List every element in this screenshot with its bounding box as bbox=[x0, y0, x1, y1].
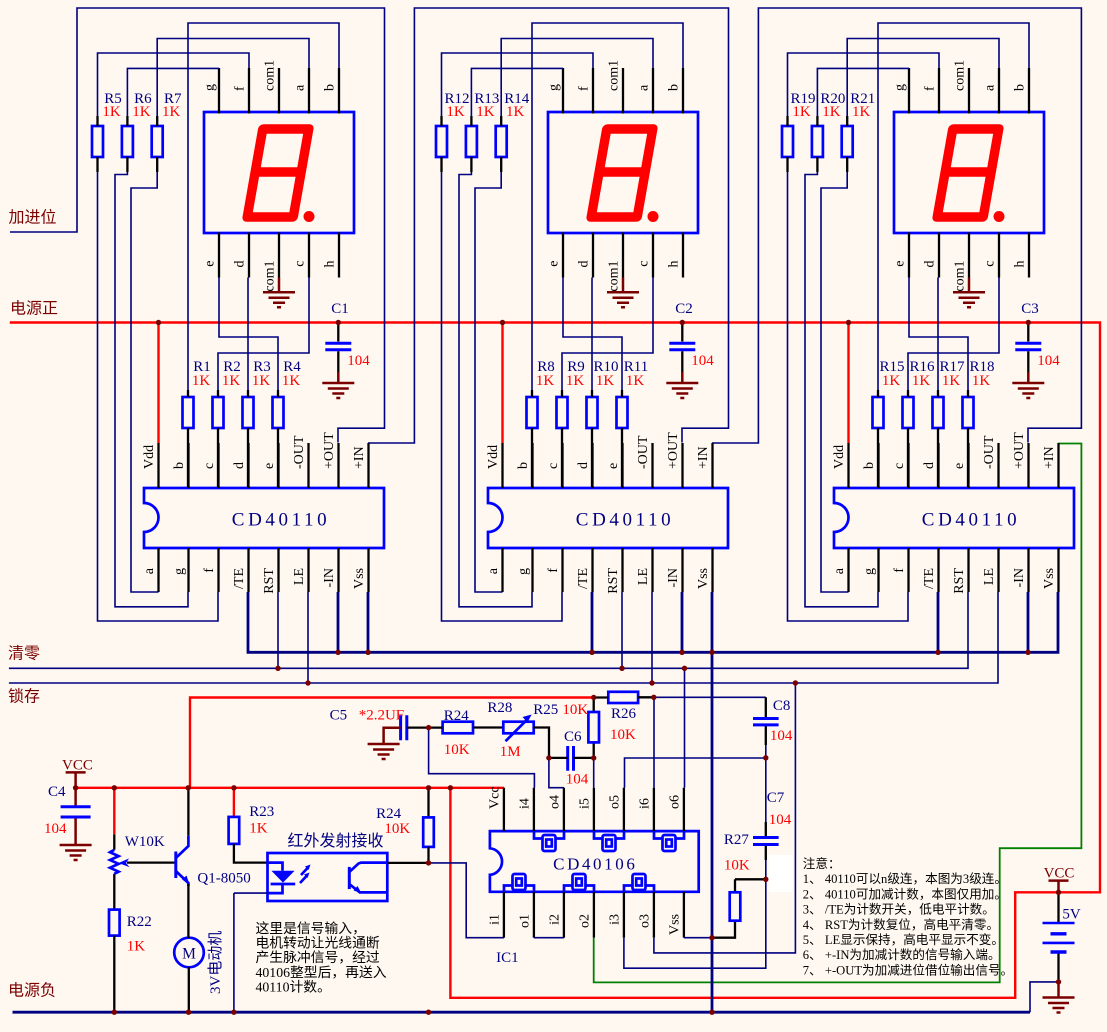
svg-text:e: e bbox=[262, 463, 277, 469]
pin f of U1 bbox=[217, 548, 219, 592]
svg-text:104: 104 bbox=[44, 821, 67, 837]
pin b of U3 bbox=[877, 443, 879, 488]
svg-text:com1: com1 bbox=[607, 261, 622, 292]
pin a of U3 bbox=[847, 548, 849, 592]
svg-text:o6: o6 bbox=[667, 795, 682, 809]
pin a of DS1 (top) bbox=[308, 68, 310, 114]
svg-text:4、 RST为计数复位，高电平清零。: 4、 RST为计数复位，高电平清零。 bbox=[803, 917, 999, 932]
svg-text:i1: i1 bbox=[487, 914, 502, 925]
junction node bbox=[546, 755, 551, 760]
schmitt gate symbols bbox=[534, 831, 564, 838]
net 电源正 positive supply rail bbox=[10, 323, 1100, 998]
svg-text:b: b bbox=[667, 84, 682, 91]
svg-text:d: d bbox=[923, 261, 938, 268]
svg-text:c: c bbox=[202, 463, 217, 469]
pin h of DS2 (bottom) bbox=[682, 233, 684, 278]
pin d of U1 bbox=[247, 443, 249, 488]
svg-text:1K: 1K bbox=[476, 104, 495, 120]
net /TE-Vss ground bus bbox=[248, 592, 1058, 652]
svg-text:104: 104 bbox=[347, 353, 370, 369]
wire R-d to display d bbox=[247, 278, 249, 391]
svg-text:1K: 1K bbox=[536, 373, 555, 389]
svg-text:e: e bbox=[606, 463, 621, 469]
ground at display DS2 com1 bbox=[622, 278, 625, 293]
transistor Q1-8050 bbox=[187, 788, 189, 836]
wire R-a to display a bbox=[157, 39, 309, 117]
svg-text:i2: i2 bbox=[547, 914, 562, 925]
pin -IN of U1 bbox=[337, 548, 339, 592]
wire count signal o2 to +IN3 (green) bbox=[594, 444, 1082, 983]
junction on 锁存 bus bbox=[649, 680, 654, 685]
op-chip U1 CD40110 bbox=[144, 488, 384, 548]
svg-text:c: c bbox=[637, 261, 652, 267]
pin Vss of U3 bbox=[1057, 548, 1059, 592]
svg-text:-OUT: -OUT bbox=[292, 435, 307, 469]
wire R-a to display a bbox=[501, 39, 653, 117]
resistor R27 10K bbox=[712, 879, 766, 937]
junction on 电源正 rail bbox=[156, 320, 161, 325]
svg-text:c: c bbox=[546, 463, 561, 469]
svg-text:o1: o1 bbox=[517, 914, 532, 928]
junction on 清零 bus bbox=[619, 666, 624, 671]
svg-text:1K: 1K bbox=[162, 104, 181, 120]
svg-text:/TE: /TE bbox=[576, 568, 591, 589]
svg-text:10K: 10K bbox=[384, 821, 410, 837]
resistor R1 1K bbox=[183, 397, 194, 428]
net 清零 reset bus bbox=[9, 592, 968, 668]
junction node bbox=[426, 725, 431, 730]
wire carry link +IN1 to +OUT2 bbox=[368, 8, 729, 443]
svg-text:1K: 1K bbox=[972, 373, 991, 389]
svg-text:C2: C2 bbox=[675, 301, 693, 317]
svg-text:+OUT: +OUT bbox=[666, 432, 681, 469]
pin i6 of IC1 bbox=[653, 788, 655, 831]
wire R-b riser to display b bbox=[532, 23, 683, 390]
chip IC1 CD40106 bbox=[490, 831, 699, 892]
junction on ground bus bbox=[709, 650, 714, 655]
pin h of DS1 (bottom) bbox=[338, 233, 340, 278]
svg-text:W10K: W10K bbox=[125, 834, 165, 850]
pin d of DS3 (bottom) bbox=[938, 233, 940, 278]
svg-text:Vdd: Vdd bbox=[486, 445, 501, 469]
wire Vdd of U2 to rail bbox=[501, 323, 503, 444]
junction node bbox=[591, 755, 596, 760]
svg-text:104: 104 bbox=[769, 812, 792, 828]
svg-text:h: h bbox=[1013, 261, 1028, 268]
wire o5 to C8/C7 node bbox=[625, 758, 766, 788]
wire R-c to display c bbox=[562, 278, 653, 391]
wire R-g to display g bbox=[817, 68, 909, 116]
ground at C2 bbox=[681, 372, 684, 383]
svg-text:加进位: 加进位 bbox=[9, 209, 57, 227]
svg-text:d: d bbox=[922, 462, 937, 469]
wire LE of U2 to 锁存 bbox=[651, 592, 653, 683]
capacitor C8 104 bbox=[765, 697, 767, 745]
svg-text:5V: 5V bbox=[1062, 907, 1081, 923]
pin o3 of IC1 bbox=[653, 892, 655, 938]
svg-text:10K: 10K bbox=[444, 742, 470, 758]
svg-text:g: g bbox=[516, 568, 531, 575]
svg-text:6、 +-IN为加减计数的信号输入端。: 6、 +-IN为加减计数的信号输入端。 bbox=[803, 947, 1001, 962]
pin +IN of U3 bbox=[1057, 443, 1059, 488]
svg-text:R28: R28 bbox=[487, 700, 512, 716]
pin -IN of U2 bbox=[681, 548, 683, 592]
svg-text:Vss: Vss bbox=[667, 914, 682, 935]
wire R-g to display g bbox=[471, 68, 563, 116]
svg-text:/TE: /TE bbox=[922, 568, 937, 589]
svg-text:f: f bbox=[577, 86, 592, 91]
wire Vdd of U3 to rail bbox=[847, 323, 849, 444]
LED inside optocoupler bbox=[268, 863, 283, 894]
svg-text:Vdd: Vdd bbox=[832, 445, 847, 469]
wire R-g to U g pin bbox=[115, 172, 188, 607]
svg-text:+OUT: +OUT bbox=[1012, 432, 1027, 469]
svg-text:e: e bbox=[893, 261, 908, 267]
resistor R24 10K (RC) bbox=[443, 722, 473, 734]
svg-text:1K: 1K bbox=[912, 373, 931, 389]
pin com1 of DS3 (top) bbox=[968, 68, 970, 114]
svg-text:1K: 1K bbox=[282, 373, 301, 389]
wire R-f to U f pin bbox=[98, 172, 219, 621]
svg-text:h: h bbox=[667, 261, 682, 268]
svg-text:电源负: 电源负 bbox=[8, 982, 56, 1000]
svg-text:清零: 清零 bbox=[8, 645, 40, 663]
pin f of DS2 (top) bbox=[592, 68, 594, 114]
pin LE of U3 bbox=[997, 548, 999, 592]
pin g of U1 bbox=[187, 548, 189, 592]
digit 8. of display DS3 bbox=[937, 129, 999, 217]
resistor R26 10K bbox=[608, 692, 638, 703]
pin Vss of U1 bbox=[367, 548, 369, 592]
potentiometer W10K bbox=[113, 788, 115, 834]
wire R-c to display c bbox=[908, 278, 999, 391]
net VCC sub-rail to bottom section bbox=[76, 698, 594, 788]
wire R-e to display e bbox=[909, 278, 968, 391]
pin b of DS2 (top) bbox=[682, 68, 684, 114]
svg-text:c: c bbox=[892, 463, 907, 469]
wire R-d to display d bbox=[937, 278, 939, 391]
pin b of DS1 (top) bbox=[338, 68, 340, 114]
wire LED cathode to ground bbox=[234, 893, 268, 1012]
pin a of DS3 (top) bbox=[998, 68, 1000, 114]
svg-text:R25: R25 bbox=[533, 702, 558, 718]
svg-text:104: 104 bbox=[691, 353, 714, 369]
junction on 电源负 rail bbox=[426, 1010, 431, 1015]
junction on 电源正 rail bbox=[336, 320, 341, 325]
resistor R20 1K bbox=[812, 126, 823, 157]
pin o4 of IC1 bbox=[563, 788, 565, 831]
resistor R10 1K bbox=[587, 397, 598, 428]
optocoupler 红外发射接收 bbox=[268, 853, 388, 901]
svg-text:电源正: 电源正 bbox=[10, 300, 58, 318]
svg-text:c: c bbox=[983, 261, 998, 267]
svg-text:f: f bbox=[233, 86, 248, 91]
capacitor C6 104 bbox=[568, 746, 574, 771]
junction on ground bus bbox=[1025, 650, 1030, 655]
resistor R2 1K bbox=[213, 397, 224, 428]
resistor R12 1K bbox=[436, 126, 447, 157]
resistor R15 1K bbox=[873, 397, 884, 428]
wire R-a to display a bbox=[847, 39, 999, 117]
capacitor C1 104 bbox=[337, 323, 339, 373]
svg-text:电机转动让光线通断: 电机转动让光线通断 bbox=[256, 936, 380, 951]
pin d of DS2 (bottom) bbox=[592, 233, 594, 278]
capacitor C2 104 bbox=[681, 323, 683, 373]
wire /TE of U3 to bus bbox=[937, 592, 940, 652]
svg-text:i3: i3 bbox=[607, 914, 622, 925]
svg-text:LE: LE bbox=[292, 568, 307, 585]
wire R-g to display g bbox=[127, 68, 219, 116]
svg-text:C4: C4 bbox=[48, 784, 66, 800]
capacitor C4 104 bbox=[74, 788, 77, 832]
resistor R5 1K bbox=[92, 126, 103, 157]
pin d of U2 bbox=[591, 443, 593, 488]
pin b of U2 bbox=[531, 443, 533, 488]
pin Vdd of U2 bbox=[501, 443, 503, 488]
svg-text:1M: 1M bbox=[500, 744, 521, 760]
svg-text:1K: 1K bbox=[132, 104, 151, 120]
pin c of U2 bbox=[561, 443, 563, 488]
pin b of U1 bbox=[187, 443, 189, 488]
junction on 清零 bus bbox=[682, 666, 687, 671]
svg-text:1K: 1K bbox=[249, 821, 267, 837]
resistor R13 1K bbox=[466, 126, 477, 157]
svg-text:IC1: IC1 bbox=[496, 950, 518, 966]
svg-text:g: g bbox=[547, 84, 562, 91]
pin com1 of DS2 (top) bbox=[622, 68, 624, 114]
pin f of DS1 (top) bbox=[248, 68, 250, 114]
wire R-f to display f bbox=[98, 53, 250, 116]
junction on VCC sub-rail bbox=[426, 785, 431, 790]
resistor R23 1K bbox=[233, 788, 235, 817]
resistor R11 1K bbox=[617, 397, 628, 428]
svg-text:b: b bbox=[323, 84, 338, 91]
svg-text:1K: 1K bbox=[792, 104, 811, 120]
wire carry link +IN2 to +OUT3 bbox=[712, 8, 1081, 443]
svg-text:40110计数。: 40110计数。 bbox=[256, 979, 331, 994]
wire o3 to 锁存 bbox=[654, 683, 796, 953]
pin g of DS3 (top) bbox=[908, 68, 910, 114]
svg-text:-IN: -IN bbox=[666, 568, 681, 587]
resistor R24 10K (photo pull-up) bbox=[427, 788, 429, 818]
wire R-d to display d bbox=[591, 278, 593, 391]
junction on 电源负 rail bbox=[709, 1010, 714, 1015]
junction node bbox=[1056, 979, 1061, 984]
svg-text:f: f bbox=[546, 568, 561, 573]
net 电源负 negative supply rail bbox=[13, 1011, 1031, 1014]
phototransistor inside optocoupler bbox=[348, 867, 351, 889]
svg-text:g: g bbox=[893, 84, 908, 91]
pin Vss of U2 bbox=[711, 548, 713, 592]
svg-text:-OUT: -OUT bbox=[636, 435, 651, 469]
pin c of U1 bbox=[217, 443, 219, 488]
svg-text:CD40110: CD40110 bbox=[922, 510, 1020, 531]
svg-text:104: 104 bbox=[566, 772, 589, 788]
svg-text:C3: C3 bbox=[1021, 301, 1039, 317]
svg-text:R27: R27 bbox=[724, 832, 750, 848]
svg-text:a: a bbox=[293, 84, 308, 91]
svg-text:d: d bbox=[232, 462, 247, 469]
pin com1 of DS1 (bottom) bbox=[278, 233, 280, 278]
svg-text:com1: com1 bbox=[263, 60, 278, 91]
resistor R18 1K bbox=[963, 397, 974, 428]
pin e of U3 bbox=[967, 443, 969, 488]
junction on 电源正 rail bbox=[1026, 320, 1031, 325]
capacitor C7 104 bbox=[765, 758, 767, 822]
svg-text:R22: R22 bbox=[127, 914, 152, 930]
resistor R22 1K bbox=[109, 910, 120, 936]
digit 8. of display DS2 bbox=[591, 129, 653, 217]
svg-text:d: d bbox=[576, 462, 591, 469]
wire o6 to 清零 bbox=[684, 668, 686, 787]
svg-text:f: f bbox=[923, 86, 938, 91]
svg-text:-OUT: -OUT bbox=[982, 435, 997, 469]
svg-text:1K: 1K bbox=[566, 373, 585, 389]
svg-text:C8: C8 bbox=[773, 698, 791, 714]
pin e of DS2 (bottom) bbox=[562, 233, 564, 278]
wire phototransistor collector to i1 bbox=[429, 863, 504, 938]
svg-text:1K: 1K bbox=[626, 373, 645, 389]
svg-text:VCC: VCC bbox=[62, 758, 93, 774]
pin Vdd of U1 bbox=[157, 443, 159, 488]
svg-text:o3: o3 bbox=[637, 914, 652, 928]
pin e of DS1 (bottom) bbox=[218, 233, 220, 278]
svg-text:d: d bbox=[233, 261, 248, 268]
junction node bbox=[763, 755, 768, 760]
resistor R9 1K bbox=[557, 397, 568, 428]
ground at C1 bbox=[337, 372, 340, 383]
svg-text:f: f bbox=[202, 568, 217, 573]
junction on 电源正 rail bbox=[846, 320, 851, 325]
svg-text:40106整型后，再送入: 40106整型后，再送入 bbox=[256, 965, 387, 980]
junction on 锁存 bus bbox=[305, 680, 310, 685]
ground at C4 bbox=[74, 832, 77, 845]
pin c of DS3 (bottom) bbox=[998, 233, 1000, 278]
pin c of U3 bbox=[907, 443, 909, 488]
junction on VCC sub-rail bbox=[231, 785, 236, 790]
junction on 电源正 rail bbox=[680, 320, 685, 325]
potentiometer R28 1M bbox=[503, 722, 533, 734]
pin b of DS3 (top) bbox=[1028, 68, 1030, 114]
ground at display DS1 com1 bbox=[278, 278, 281, 293]
wire R-f to display f bbox=[442, 53, 594, 116]
svg-text:i5: i5 bbox=[577, 798, 592, 809]
svg-text:CD40110: CD40110 bbox=[232, 510, 330, 531]
pin i5 of IC1 bbox=[593, 788, 595, 831]
svg-text:1K: 1K bbox=[596, 373, 615, 389]
svg-text:+OUT: +OUT bbox=[322, 432, 337, 469]
pin Vdd of U3 bbox=[847, 443, 849, 488]
svg-text:b: b bbox=[1013, 84, 1028, 91]
pin d of DS1 (bottom) bbox=[248, 233, 250, 278]
svg-text:b: b bbox=[516, 462, 531, 469]
wire R-f to U f pin bbox=[442, 172, 563, 621]
svg-text:1K: 1K bbox=[882, 373, 901, 389]
op-chip U2 CD40110 bbox=[488, 488, 728, 548]
svg-text:C5: C5 bbox=[330, 708, 348, 724]
pin com1 of DS1 (top) bbox=[278, 68, 280, 114]
svg-text:3、 /TE为计数开关，低电平计数。: 3、 /TE为计数开关，低电平计数。 bbox=[803, 903, 995, 917]
pin -OUT of U1 bbox=[307, 443, 309, 488]
svg-text:锁存: 锁存 bbox=[8, 688, 40, 706]
wire R-a to U a pin bbox=[131, 172, 159, 592]
pin -OUT of U2 bbox=[651, 443, 653, 488]
svg-text:a: a bbox=[142, 567, 157, 574]
pin o2 of IC1 bbox=[593, 892, 595, 938]
ground at battery bbox=[1057, 982, 1060, 998]
svg-text:com1: com1 bbox=[263, 261, 278, 292]
resistor R3 1K bbox=[243, 397, 254, 428]
pin RST of U3 bbox=[967, 548, 969, 592]
svg-text:LE: LE bbox=[982, 568, 997, 585]
pin +IN of U2 bbox=[711, 443, 713, 488]
junction on 清零 bus bbox=[275, 666, 280, 671]
pin -OUT of U3 bbox=[997, 443, 999, 488]
wire -IN of U1 to bus bbox=[337, 592, 340, 652]
svg-text:C6: C6 bbox=[564, 729, 582, 745]
motor M 3V电动机 bbox=[174, 938, 204, 968]
svg-text:1K: 1K bbox=[822, 104, 841, 120]
svg-text:RST: RST bbox=[606, 568, 621, 594]
svg-text:10K: 10K bbox=[610, 727, 636, 743]
7-segment display DS1 bbox=[204, 112, 354, 233]
junction node bbox=[709, 935, 714, 940]
wire Vss of U1 to bus bbox=[367, 592, 370, 652]
pin /TE of U3 bbox=[937, 548, 939, 592]
wire R-a to U a pin bbox=[475, 172, 503, 592]
pin LE of U1 bbox=[307, 548, 309, 592]
pin d of U3 bbox=[937, 443, 939, 488]
battery BT1 5V bbox=[1049, 881, 1069, 893]
pin g of U2 bbox=[531, 548, 533, 592]
junction node bbox=[763, 877, 768, 882]
svg-text:1K: 1K bbox=[252, 373, 271, 389]
pin Vss of IC1 bbox=[683, 892, 685, 938]
wire R-b riser to display b bbox=[878, 23, 1029, 390]
svg-text:Vdd: Vdd bbox=[142, 445, 157, 469]
junction on 锁存 bus bbox=[793, 680, 798, 685]
wire R25/C6 node to i5 bbox=[593, 758, 595, 788]
svg-text:5、 LE显示保持，高电平显示不变。: 5、 LE显示保持，高电平显示不变。 bbox=[803, 932, 1004, 947]
resistor R17 1K bbox=[933, 397, 944, 428]
svg-text:Vss: Vss bbox=[696, 568, 711, 589]
pin g of U3 bbox=[877, 548, 879, 592]
pin com1 of DS2 (bottom) bbox=[622, 233, 624, 278]
junction node bbox=[591, 695, 596, 700]
wire R-f to display f bbox=[788, 53, 940, 116]
svg-text:1、 40110可以n级连，本图为3级连。: 1、 40110可以n级连，本图为3级连。 bbox=[803, 871, 1007, 886]
wire Vss of IC1 to ground bbox=[684, 937, 712, 939]
svg-text:104: 104 bbox=[1037, 353, 1060, 369]
svg-text:1K: 1K bbox=[506, 104, 525, 120]
svg-text:2、 40110可加减计数，本图仅用加。: 2、 40110可加减计数，本图仅用加。 bbox=[803, 887, 1007, 901]
pin +OUT of U2 bbox=[681, 443, 683, 488]
svg-text:+IN: +IN bbox=[1042, 446, 1057, 469]
junction on VCC sub-rail bbox=[73, 785, 78, 790]
svg-text:e: e bbox=[952, 463, 967, 469]
pin /TE of U1 bbox=[247, 548, 249, 592]
7-segment display DS3 bbox=[894, 112, 1044, 233]
pin a of DS2 (top) bbox=[652, 68, 654, 114]
svg-text:i6: i6 bbox=[637, 798, 652, 809]
svg-text:o4: o4 bbox=[547, 795, 562, 809]
svg-text:1K: 1K bbox=[222, 373, 241, 389]
ground at display DS3 com1 bbox=[968, 278, 971, 293]
pin RST of U1 bbox=[277, 548, 279, 592]
digit 8. of display DS1 bbox=[247, 129, 309, 217]
svg-text:h: h bbox=[323, 261, 338, 268]
pin LE of U2 bbox=[651, 548, 653, 592]
